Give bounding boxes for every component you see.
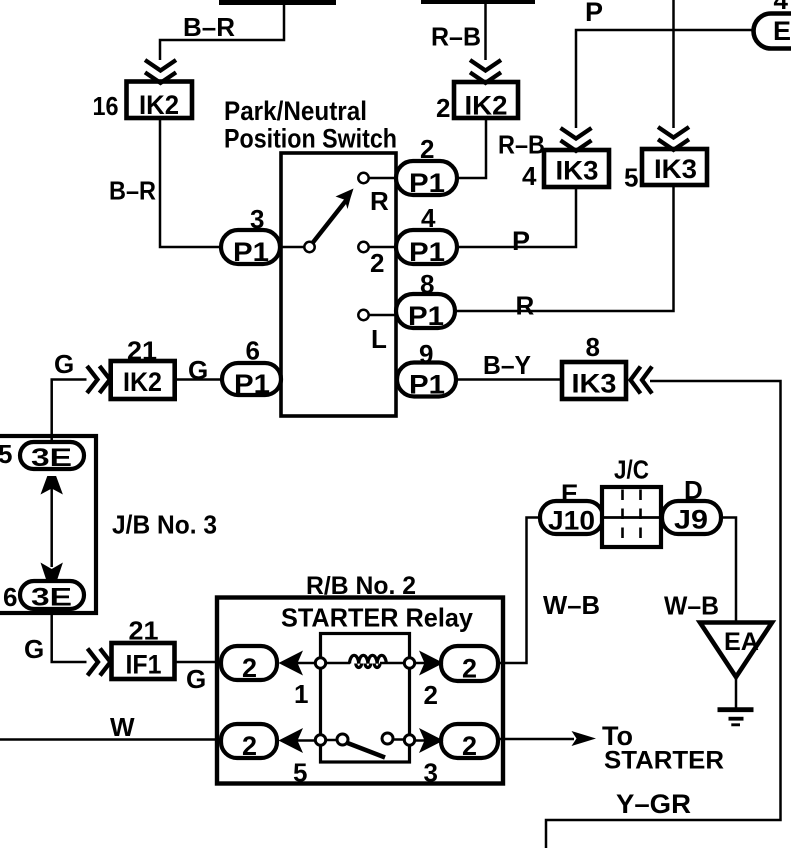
connector bar top-right (cut off component)	[421, 0, 535, 4]
contact N circle	[358, 242, 368, 252]
connector bar top-left (cut off component)	[219, 0, 336, 5]
svg-text:W: W	[110, 712, 135, 742]
wire from IK2 2 down to P1 pin 2	[458, 118, 486, 178]
connector J10	[540, 501, 603, 534]
wire P from E oval to splice IK3 4	[576, 30, 754, 128]
svg-text:R: R	[516, 291, 535, 321]
svg-text:4: 4	[421, 203, 436, 233]
svg-text:6: 6	[246, 336, 260, 366]
wire from IK3 8 to right edge and down to bottom	[546, 381, 781, 848]
svg-text:21: 21	[129, 616, 159, 646]
svg-text:P: P	[585, 0, 603, 27]
svg-text:IK3: IK3	[572, 369, 617, 399]
switch moving contact circle	[382, 733, 393, 744]
connector P1 pin 9	[397, 363, 456, 397]
svg-text:Position Switch: Position Switch	[224, 124, 397, 154]
wire bottom row left	[295, 739, 314, 742]
svg-text:J9: J9	[674, 505, 708, 535]
svg-text:1: 1	[294, 679, 308, 709]
wire W-B from J9 down to EA ground	[721, 518, 736, 625]
svg-text:21: 21	[127, 336, 157, 366]
svg-text:IK3: IK3	[556, 156, 599, 186]
wire B-Y from P1 9 to IK3 8	[456, 378, 562, 381]
svg-text:8: 8	[420, 269, 434, 299]
svg-text:9: 9	[419, 339, 433, 369]
wire stub R	[370, 177, 397, 180]
svg-text:G: G	[186, 664, 206, 694]
svg-text:IK2: IK2	[465, 91, 508, 121]
svg-text:G: G	[24, 634, 44, 664]
wire	[394, 738, 404, 741]
svg-text:2: 2	[436, 93, 450, 123]
wire top row left	[295, 662, 314, 665]
svg-text:4: 4	[522, 161, 537, 191]
switch fixed contact circle	[337, 734, 348, 745]
svg-text:2: 2	[424, 680, 438, 710]
connector 3E pin 5	[20, 442, 84, 469]
svg-text:6: 6	[3, 582, 17, 612]
svg-text:2: 2	[462, 654, 477, 684]
wire between 3E splices	[50, 485, 53, 567]
connector IK2 pin 2	[454, 82, 518, 118]
wire from EA to ground	[735, 677, 738, 708]
svg-text:R: R	[370, 186, 389, 216]
arrow up inside J/B	[41, 476, 63, 495]
svg-text:IF1: IF1	[126, 650, 162, 680]
svg-text:L: L	[371, 324, 387, 354]
connector J9	[662, 501, 721, 534]
splice chevron into IK2 16	[145, 60, 176, 83]
svg-text:IK2: IK2	[139, 90, 179, 120]
wire from IF1 to relay	[175, 661, 222, 664]
svg-text:4: 4	[774, 0, 789, 15]
splice chevron into IK2 21	[87, 366, 110, 393]
connector IK3 pin 8	[562, 362, 626, 399]
svg-text:3: 3	[424, 758, 438, 788]
ground symbol	[718, 707, 754, 712]
connector P1 pin 2	[396, 161, 457, 195]
svg-text:2: 2	[462, 731, 477, 761]
wire R-B from bar to splice	[484, 4, 487, 60]
svg-text:P1: P1	[409, 168, 445, 198]
wire to coil	[327, 662, 350, 665]
connector IK3 pin 4	[544, 150, 609, 187]
wire stub L	[370, 314, 397, 317]
connector 2 top-left	[221, 646, 277, 680]
wire from coil	[380, 662, 403, 665]
connector P1 pin 3	[221, 230, 280, 264]
svg-text:J/B No. 3: J/B No. 3	[112, 510, 217, 540]
svg-text:3E: 3E	[31, 584, 72, 612]
svg-text:P1: P1	[409, 237, 445, 267]
svg-text:R–B: R–B	[498, 130, 545, 160]
switch pivot contact	[304, 242, 314, 252]
splice chevron out of IK3 8	[631, 367, 653, 394]
splice chevron into IF1	[88, 649, 111, 676]
connector P1 pin 4	[396, 230, 457, 264]
wire stub to pivot	[281, 246, 304, 249]
svg-text:2: 2	[242, 653, 257, 683]
connector IK2 pin 16	[127, 82, 193, 119]
splice chevron into IK2 2	[470, 60, 501, 83]
relay inner box	[321, 634, 410, 763]
ground point EA triangle	[700, 623, 772, 678]
svg-text:P1: P1	[409, 370, 445, 400]
contact L circle	[358, 310, 368, 320]
arrow into connector 2 bottom-right	[419, 728, 444, 753]
svg-text:P1: P1	[233, 237, 269, 267]
switch blade open	[348, 743, 386, 758]
relay coil	[350, 655, 387, 667]
connector P1 pin 8	[396, 294, 455, 328]
svg-text:STARTER Relay: STARTER Relay	[281, 603, 474, 633]
splice chevron into IK3 5	[658, 127, 689, 150]
connector E (cut off at right)	[754, 14, 791, 49]
R/B No.2 box	[217, 598, 503, 784]
wire R from P1 8 to IK3 5	[455, 185, 674, 311]
svg-text:J10: J10	[548, 506, 595, 536]
wire top row right	[416, 662, 443, 665]
arrow into connector 2 top-right	[419, 651, 444, 676]
svg-text:2: 2	[370, 248, 384, 278]
svg-text:Park/Neutral: Park/Neutral	[224, 96, 367, 126]
wire stub N	[370, 246, 397, 249]
contact R circle	[358, 173, 368, 183]
svg-text:Y–GR: Y–GR	[616, 789, 691, 819]
wire B-R from IK2 16 to P1 pin 3	[160, 118, 221, 247]
wire P from P1 4 to IK3 4	[457, 187, 576, 247]
svg-text:W–B: W–B	[543, 590, 600, 620]
wire through J/C	[600, 516, 664, 519]
connector IF1 pin 21	[112, 643, 175, 679]
connector 2 bottom-left	[221, 724, 277, 758]
svg-text:P: P	[512, 226, 530, 256]
connector 2 top-right	[441, 646, 498, 681]
svg-text:IK3: IK3	[654, 154, 697, 184]
connector IK3 pin 5	[642, 149, 707, 185]
wire B-R from top bar down to splice IK2 16	[160, 4, 284, 60]
svg-text:B–R: B–R	[183, 12, 235, 42]
connector IK2 pin 21	[111, 361, 175, 399]
wire	[327, 739, 337, 742]
wire to starter with arrow	[498, 738, 574, 741]
svg-text:J/C: J/C	[614, 455, 649, 485]
wire W-B from 2 top-right up to J10	[498, 518, 540, 664]
svg-text:2: 2	[242, 731, 257, 761]
relay switch terminal 5 circle	[315, 735, 325, 745]
svg-text:P1: P1	[408, 301, 444, 331]
svg-text:8: 8	[586, 332, 600, 362]
J/B No.3 box	[0, 436, 96, 613]
svg-text:B–Y: B–Y	[483, 350, 531, 380]
svg-text:G: G	[54, 349, 74, 379]
connector 3E pin 6	[20, 581, 84, 609]
svg-text:IK2: IK2	[123, 367, 162, 397]
relay coil terminal 1 circle	[315, 658, 325, 668]
svg-text:2: 2	[420, 134, 434, 164]
wire G to splice and down to 3E	[52, 380, 87, 443]
svg-text:EA: EA	[724, 628, 759, 656]
svg-text:3: 3	[250, 204, 264, 234]
connector 2 bottom-right	[441, 724, 498, 758]
dashed pin lines in J/C	[621, 490, 624, 546]
wire G from 3E 6 down to IF1	[52, 609, 87, 662]
splice chevron into IK3 4	[561, 128, 592, 151]
junction connector box	[602, 487, 661, 547]
connector P1 pin 6	[222, 363, 281, 395]
svg-text:P1: P1	[234, 369, 270, 399]
svg-text:B–R: B–R	[109, 176, 156, 206]
wire G from IK2 21 to P1 6	[175, 378, 222, 381]
svg-text:STARTER: STARTER	[604, 747, 724, 775]
svg-text:5: 5	[293, 758, 307, 788]
svg-text:W–B: W–B	[664, 591, 719, 621]
svg-text:5: 5	[0, 439, 12, 469]
svg-text:E: E	[561, 479, 578, 509]
relay coil terminal 2 circle	[404, 658, 414, 668]
wire W from left edge	[0, 738, 221, 741]
wire bottom row right	[416, 739, 443, 742]
arrow into relay switch left	[279, 728, 304, 753]
arrow down inside J/B	[41, 563, 63, 584]
svg-text:E: E	[773, 16, 791, 46]
svg-text:16: 16	[93, 91, 119, 121]
Park/Neutral Position Switch box	[281, 153, 396, 416]
svg-text:3E: 3E	[31, 444, 72, 472]
relay switch terminal 3 circle	[404, 735, 414, 745]
arrow into relay coil left	[279, 651, 304, 676]
svg-text:5: 5	[624, 163, 638, 193]
switch arm arrow toward R	[313, 198, 349, 243]
svg-text:R–B: R–B	[431, 22, 481, 52]
svg-text:G: G	[188, 355, 208, 385]
wire down at x=673 from top	[672, 0, 675, 128]
